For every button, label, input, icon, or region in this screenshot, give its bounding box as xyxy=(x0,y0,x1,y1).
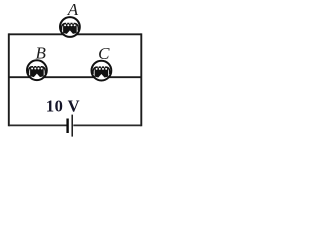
lamp A xyxy=(60,17,80,37)
wire top (through lamp A) xyxy=(9,33,142,35)
wire bottom-right (from battery) xyxy=(73,124,141,126)
wire left xyxy=(8,33,10,126)
svg-text:B: B xyxy=(36,44,47,63)
lamp B xyxy=(27,60,47,80)
svg-text:10 V: 10 V xyxy=(46,96,80,115)
wire middle branch (through lamps B and C) xyxy=(9,76,142,78)
battery cell (positive plate, long thin) xyxy=(71,115,73,137)
svg-text:C: C xyxy=(98,44,110,63)
svg-text:A: A xyxy=(67,0,79,19)
wire right xyxy=(140,33,142,126)
battery cell (negative plate, short thick) xyxy=(66,119,68,134)
lamp C xyxy=(92,61,112,81)
wire bottom-left (to battery) xyxy=(9,124,67,126)
